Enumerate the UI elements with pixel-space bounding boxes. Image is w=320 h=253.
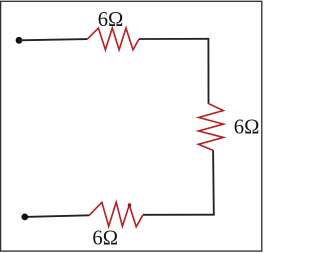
svg-text:6Ω: 6Ω bbox=[98, 9, 124, 31]
wire: right lower vertical segment bbox=[212, 150, 215, 215]
node: top-left terminal dot bbox=[16, 37, 23, 44]
wire: bottom-left lead from R3 to terminal bbox=[25, 215, 89, 217]
resistor R1 6Ω (top) bbox=[87, 28, 139, 50]
resistor R3 6Ω (bottom) bbox=[89, 202, 143, 227]
wire: top segment from R1 to top-right corner bbox=[139, 38, 208, 40]
junction dot on R3 apex bbox=[128, 203, 132, 207]
svg-text:6Ω: 6Ω bbox=[234, 116, 260, 138]
wire: bottom segment from bottom-right corner to R3 bbox=[143, 214, 215, 216]
node: bottom-left terminal dot bbox=[21, 214, 28, 221]
svg-text:6Ω: 6Ω bbox=[92, 227, 118, 249]
resistor R2 6Ω (right vertical) bbox=[198, 104, 223, 151]
wire: right upper vertical segment bbox=[207, 38, 209, 104]
wire: top-left lead from terminal to R1 bbox=[19, 39, 87, 40]
